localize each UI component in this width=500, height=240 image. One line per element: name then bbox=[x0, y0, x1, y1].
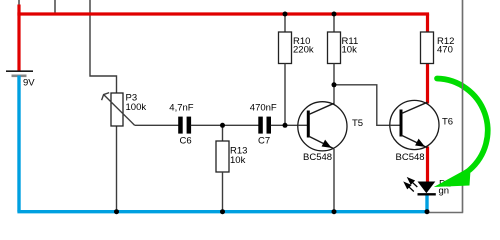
resistor R12 box bbox=[421, 32, 434, 64]
wire T5 collector riser bbox=[333, 85, 335, 104]
svg-text:T6: T6 bbox=[442, 117, 453, 128]
junction R13 to ground rail bbox=[220, 209, 225, 214]
wire C7 to T5 base bbox=[271, 124, 308, 126]
wire T6 emitter to LED (red) bbox=[426, 147, 429, 183]
wire R10 top bbox=[284, 14, 286, 33]
wire ground rail (blue) bbox=[17, 76, 20, 212]
wire node to T6 base bbox=[334, 85, 401, 126]
svg-text:470nF: 470nF bbox=[250, 103, 277, 114]
junction R11 to +9V rail bbox=[332, 12, 337, 17]
potentiometer P3 box bbox=[111, 93, 123, 126]
wire +9V rail (red) bbox=[17, 5, 20, 71]
LED emission arrows bbox=[405, 178, 418, 191]
svg-text:C6: C6 bbox=[180, 135, 192, 146]
svg-text:BC548: BC548 bbox=[396, 152, 425, 163]
wire C6 to C7 bbox=[191, 124, 259, 126]
svg-text:9V: 9V bbox=[23, 78, 35, 89]
capacitor C6 bbox=[178, 117, 183, 134]
junction T5 emitter to ground rail bbox=[332, 209, 337, 214]
svg-text:220k: 220k bbox=[293, 45, 314, 56]
resistor R10 box bbox=[279, 32, 292, 64]
LED D2 bbox=[418, 182, 436, 194]
junction LED to ground rail bbox=[425, 209, 430, 214]
junction R11/T5 collector/T6 base node bbox=[332, 82, 337, 87]
gray line over arc bbox=[462, 0, 464, 213]
junction C7/R10/T5 base node bbox=[283, 123, 288, 128]
green arrow head bbox=[434, 166, 471, 187]
svg-text:BC548: BC548 bbox=[303, 152, 332, 163]
svg-text:C7: C7 bbox=[258, 135, 270, 146]
junction R10 to +9V rail bbox=[283, 12, 288, 17]
battery B1 negative plate bbox=[12, 75, 27, 78]
wire P3 bottom to ground bbox=[116, 126, 118, 212]
wire R11 top bbox=[333, 14, 335, 33]
wire R12 to T6 collector (red) bbox=[426, 64, 429, 104]
svg-text:10k: 10k bbox=[230, 155, 246, 166]
transistor T5 bbox=[298, 102, 347, 151]
battery B1 positive plate bbox=[6, 70, 33, 72]
wire right return (gray) bbox=[427, 0, 463, 213]
transistor T6 bbox=[390, 100, 439, 149]
green highlight arrow arc bbox=[437, 79, 488, 171]
wire stub top at x=19 bbox=[18, 0, 20, 5]
svg-text:100k: 100k bbox=[126, 102, 147, 113]
junction C6/R13 node bbox=[220, 123, 225, 128]
resistor R13 box bbox=[216, 141, 229, 172]
junction P3 to ground rail bbox=[114, 209, 119, 214]
wire wiper to C6 bbox=[135, 124, 179, 126]
wire R13 bottom to ground bbox=[222, 172, 224, 212]
wire stub top at x=55 bbox=[54, 0, 56, 14]
wire R11 bottom to node bbox=[333, 64, 335, 85]
wire T5 emitter to ground bbox=[333, 149, 335, 212]
potentiometer P3 wiper arrow bbox=[104, 95, 135, 125]
wire R10 bottom to T5 base node bbox=[284, 64, 286, 126]
wire P3 top from top edge bbox=[90, 0, 117, 94]
wire R13 top bbox=[222, 125, 224, 141]
svg-text:470: 470 bbox=[437, 45, 453, 56]
svg-text:gn: gn bbox=[439, 186, 450, 197]
svg-text:T5: T5 bbox=[352, 118, 363, 129]
capacitor C7 bbox=[258, 117, 263, 134]
resistor R11 box bbox=[328, 32, 341, 64]
svg-text:10k: 10k bbox=[342, 45, 358, 56]
svg-text:4,7nF: 4,7nF bbox=[169, 103, 193, 114]
